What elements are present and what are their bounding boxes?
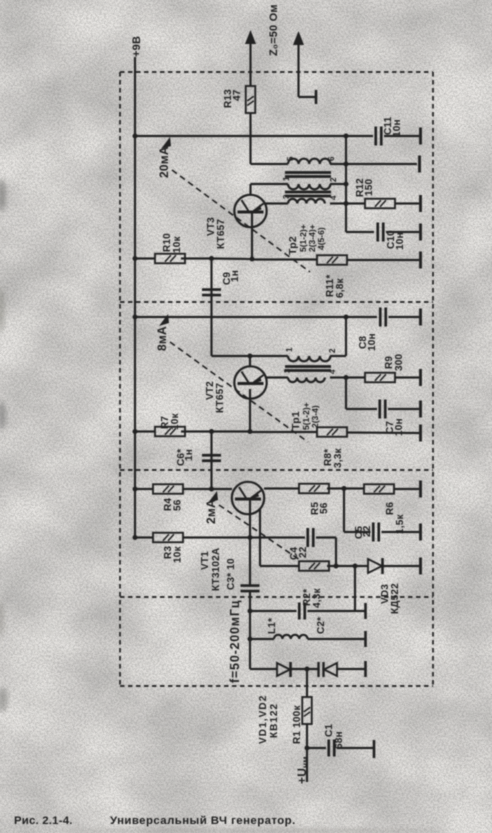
svg-text:3: 3 (283, 368, 292, 373)
svg-text:6,8к: 6,8к (335, 277, 346, 298)
svg-text:10н: 10н (367, 333, 378, 351)
svg-text:4(5-6): 4(5-6) (316, 227, 326, 250)
svg-text:3,3к: 3,3к (333, 447, 344, 468)
svg-text:Z₀=50 Ом: Z₀=50 Ом (268, 4, 280, 56)
svg-text:20мА: 20мА (157, 146, 171, 178)
svg-text:VT1: VT1 (200, 551, 211, 570)
svg-text:С2*: С2* (316, 617, 327, 634)
svg-text:6: 6 (327, 156, 336, 161)
svg-text:10к: 10к (172, 235, 183, 253)
svg-text:300: 300 (394, 353, 405, 371)
svg-text:КД522: КД522 (390, 583, 401, 614)
svg-text:L1*: L1* (267, 618, 278, 634)
svg-text:f=50-200мГц: f=50-200мГц (228, 600, 242, 683)
svg-text:47: 47 (232, 89, 243, 101)
svg-text:10н: 10н (395, 232, 406, 250)
svg-text:2(3-4): 2(3-4) (310, 405, 320, 428)
svg-text:С3* 10: С3* 10 (226, 558, 237, 590)
svg-text:VD1,VD2: VD1,VD2 (258, 695, 269, 744)
svg-text:3: 3 (282, 194, 291, 199)
svg-text:2: 2 (329, 177, 338, 182)
svg-text:2мА: 2мА (204, 499, 218, 524)
svg-text:КТ657: КТ657 (215, 383, 226, 413)
svg-text:Универсальный ВЧ генератор.: Универсальный ВЧ генератор. (110, 815, 296, 827)
svg-text:10к: 10к (170, 412, 181, 430)
svg-text:1: 1 (282, 176, 291, 181)
svg-text:1: 1 (285, 347, 294, 352)
svg-text:4,3к: 4,3к (312, 587, 323, 608)
svg-text:R1 100к: R1 100к (292, 705, 303, 744)
svg-text:+9В: +9В (131, 36, 143, 57)
svg-text:8мА: 8мА (155, 326, 169, 351)
svg-text:10н: 10н (392, 119, 403, 137)
svg-text:22: 22 (362, 525, 373, 537)
svg-text:56: 56 (319, 502, 330, 514)
svg-text:150: 150 (364, 178, 375, 196)
svg-text:1н: 1н (230, 270, 241, 282)
svg-text:КВ122: КВ122 (269, 703, 280, 738)
svg-text:22: 22 (298, 546, 309, 558)
svg-text:Рис. 2.1-4.: Рис. 2.1-4. (14, 815, 73, 827)
svg-text:5: 5 (286, 156, 295, 161)
svg-text:КТ3102А: КТ3102А (211, 548, 222, 591)
svg-text:1н: 1н (184, 449, 195, 461)
svg-text:56: 56 (173, 499, 184, 511)
svg-text:R6: R6 (385, 502, 396, 515)
svg-text:2: 2 (328, 348, 337, 353)
svg-text:4: 4 (328, 369, 337, 374)
svg-text:4: 4 (329, 195, 338, 200)
svg-text:10к: 10к (173, 545, 184, 563)
svg-text:КТ657: КТ657 (216, 219, 227, 249)
svg-text:68н: 68н (334, 731, 345, 749)
